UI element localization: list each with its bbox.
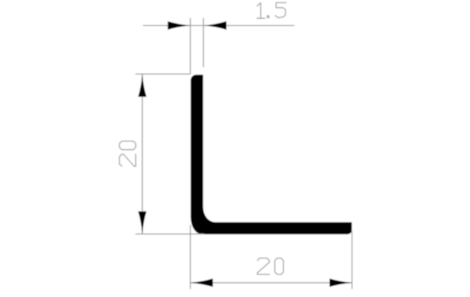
glyph .: [267, 16, 269, 18]
glyph 2: [119, 154, 135, 166]
dimension line bottom (20): [190, 282, 352, 284]
extension line top-left: [189, 18, 191, 74]
extension line top-right: [202, 18, 204, 67]
glyph 1: [257, 3, 265, 18]
extension line left-top: [135, 73, 190, 75]
arrow top left-pointing: [204, 21, 227, 29]
arrow bottom left-pointing: [190, 279, 213, 287]
arrow left down-pointing: [138, 211, 146, 234]
glyph 0: [275, 258, 284, 274]
glyph 2: [257, 258, 269, 274]
extension line bottom-right: [351, 231, 353, 289]
arrow left up-pointing: [138, 74, 146, 97]
arrow bottom right-pointing: [330, 279, 353, 287]
glyph 0: [119, 141, 135, 150]
dimension line left (20): [141, 74, 143, 234]
text 1.5 (top): [257, 3, 286, 19]
extension line bottom-left: [189, 225, 191, 289]
text 20 (left, rotated): [119, 141, 135, 166]
extension line left-bottom: [135, 233, 204, 235]
dimension line top (1.5): [143, 25, 295, 27]
L-profile 20x20x1.5 thick section: [191, 75, 352, 234]
glyph 5: [275, 3, 286, 18]
arrow top right-pointing: [168, 21, 191, 29]
text 20 (bottom): [257, 258, 283, 274]
